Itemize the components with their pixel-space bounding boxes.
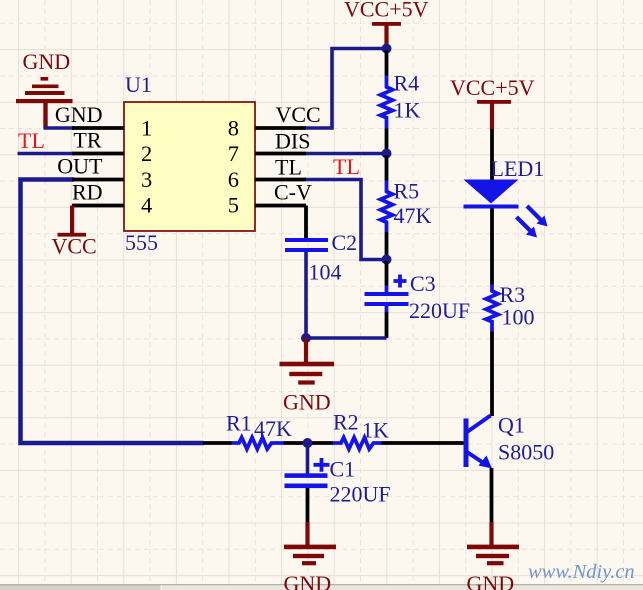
svg-text:VCC: VCC [276, 102, 321, 127]
svg-text:1K: 1K [362, 418, 389, 443]
resistor R1 [232, 438, 284, 450]
wire VCC net: dot to pin 8 [306, 49, 387, 129]
wire Q1 emitter to ground [490, 468, 494, 522]
wire R3 to Q1 collector [490, 332, 494, 417]
wire LED1 cathode to R3 [490, 209, 494, 285]
resistor R5 [381, 181, 393, 233]
svg-text:8: 8 [228, 116, 239, 141]
svg-text:GND: GND [284, 571, 332, 590]
junction at DIS dot [382, 149, 392, 159]
svg-text:100: 100 [502, 305, 535, 330]
svg-text:TL: TL [333, 154, 360, 179]
transistor Q1 (NPN) [464, 416, 493, 469]
svg-text:LED1: LED1 [491, 156, 545, 181]
svg-text:7: 7 [228, 141, 239, 166]
pin 2 (TR) [72, 141, 152, 166]
svg-text:2: 2 [141, 141, 152, 166]
svg-text:R1: R1 [226, 411, 252, 436]
svg-text:C-V: C-V [274, 180, 312, 205]
junction at base dot [303, 438, 313, 448]
wire OUT net: pin 3 left, down left side, to R1 [21, 180, 204, 444]
capacitor C1 (polarized) [285, 458, 330, 488]
svg-text:47K: 47K [394, 203, 432, 228]
resistor R4 [381, 76, 393, 129]
wire pin 5 to C2 [304, 206, 308, 239]
resistor R2 [333, 438, 382, 450]
svg-text:R4: R4 [394, 71, 420, 96]
svg-text:6: 6 [228, 167, 239, 192]
window scrollbar strip [0, 584, 643, 590]
svg-text:R5: R5 [394, 179, 420, 204]
svg-text:VCC+5V: VCC+5V [450, 75, 535, 100]
svg-text:GND: GND [467, 571, 515, 590]
wire DIS net: pin 7 to dot [306, 152, 387, 156]
IC U1 body (555 timer) [124, 102, 255, 231]
svg-text:1K: 1K [394, 98, 421, 123]
pin 8 (VCC) [228, 116, 306, 141]
svg-text:C1: C1 [330, 457, 356, 482]
wire ground dot to C3 bottom [306, 336, 387, 340]
wire TL net: pin 6 right, down, to dot [306, 180, 387, 260]
capacitor C3 (polarized) [365, 275, 409, 313]
svg-text:220UF: 220UF [409, 298, 470, 323]
svg-text:U1: U1 [125, 72, 152, 97]
ground symbol GND (below C1) [284, 522, 337, 590]
wire dot to R5 [385, 155, 389, 181]
svg-text:VCC: VCC [52, 234, 97, 259]
pin 1 (GND) [72, 116, 152, 141]
svg-text:GND: GND [283, 390, 331, 415]
pin 7 (DIS) [228, 141, 306, 166]
ground symbol GND (below Q1) [467, 522, 520, 590]
svg-text:555: 555 [125, 230, 158, 255]
svg-text:S8050: S8050 [498, 440, 554, 465]
wire C3 to bottom [385, 312, 389, 338]
wire dot to R4 [385, 50, 389, 76]
pin 3 (OUT) [72, 167, 152, 192]
svg-text:3: 3 [141, 167, 152, 192]
wire OUT net to R1 (black segment) [203, 441, 232, 445]
svg-text:5: 5 [228, 193, 239, 218]
svg-text:TL: TL [18, 128, 45, 153]
svg-text:C3: C3 [410, 271, 436, 296]
svg-text:DIS: DIS [275, 129, 310, 154]
svg-text:GND: GND [23, 49, 71, 74]
pin 5 (C-V) [228, 193, 306, 218]
wire GND net to pin 1 [44, 126, 75, 130]
power symbol VCC+5V (top) [344, 0, 429, 49]
svg-text:OUT: OUT [57, 154, 103, 179]
svg-text:4: 4 [141, 193, 152, 218]
svg-text:104: 104 [309, 260, 342, 285]
wire TL net to pin 2 [18, 152, 75, 156]
svg-text:R3: R3 [500, 282, 526, 307]
svg-text:Q1: Q1 [498, 413, 525, 438]
junction at TL dot [382, 255, 392, 265]
svg-text:TR: TR [73, 128, 101, 153]
wire C2 to ground dot [304, 252, 308, 338]
ground symbol GND (middle) [280, 338, 335, 415]
power symbol VCC (below pin 4) [52, 206, 97, 259]
svg-text:220UF: 220UF [330, 482, 391, 507]
svg-text:R2: R2 [333, 410, 359, 435]
svg-text:C2: C2 [332, 230, 358, 255]
wire dot to C3 [385, 261, 389, 286]
svg-text:GND: GND [55, 102, 103, 127]
LED light ray arrows [517, 206, 548, 238]
wire R4 to DIS dot [385, 129, 389, 153]
LED LED1 (diode triangle and cathode bar) [464, 180, 519, 209]
svg-text:RD: RD [72, 180, 103, 205]
wire R1 to base dot to R2 [284, 441, 334, 445]
wire VCC+5V to LED1 anode [490, 129, 494, 180]
wire R5 to TL dot [385, 232, 389, 258]
junction at VCC dot [382, 44, 392, 54]
wire C1 to ground [306, 488, 310, 522]
power symbol VCC+5V (right, LED supply) [450, 75, 535, 129]
ground symbol GND (top left, inverted earth) [16, 49, 73, 128]
resistor R3 [486, 285, 498, 332]
svg-text:1: 1 [141, 116, 152, 141]
svg-text:47K: 47K [254, 416, 292, 441]
svg-text:VCC+5V: VCC+5V [344, 0, 429, 22]
svg-text:www.Ndiy.cn: www.Ndiy.cn [528, 561, 635, 583]
pin 4 (RD) [72, 193, 152, 218]
pin 6 (TL) [228, 167, 306, 192]
junction at ground dot [301, 333, 311, 343]
capacitor C2 [285, 238, 328, 252]
svg-text:TL: TL [275, 155, 302, 180]
wire R2 to Q1 base [382, 441, 464, 445]
wire base dot down to C1 [306, 445, 310, 474]
